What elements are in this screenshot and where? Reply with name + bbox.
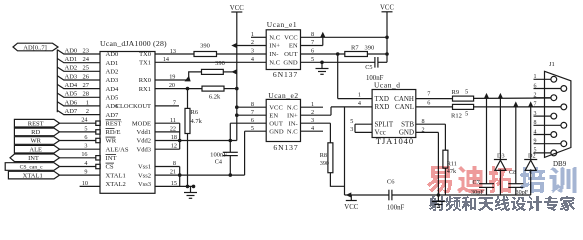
junction Vdd tie bbox=[178, 139, 182, 143]
connector pin 7 bbox=[534, 102, 567, 110]
resistor 6.2k (RX1) bbox=[202, 86, 224, 91]
junction C4 bottom bbox=[229, 173, 233, 177]
wire U_e2 pin4 stub bbox=[301, 130, 324, 132]
connector pin 1 bbox=[534, 74, 557, 82]
wire RX0 pin 19 bbox=[155, 79, 189, 81]
wire C5 to VCC2 bbox=[378, 61, 387, 63]
resistor R12 bbox=[453, 104, 474, 109]
connector pin 5 bbox=[534, 148, 557, 156]
wire VCC to U_e1 pin2 bbox=[237, 45, 266, 47]
wire AD2 bus entry bbox=[57, 67, 100, 71]
wire MODE pin 11 bbox=[155, 122, 180, 124]
port REST bbox=[14, 119, 59, 127]
wire U_e2 OUT pin6 bbox=[230, 122, 266, 124]
resistor 390 (RX0 pullup) bbox=[202, 69, 224, 74]
connector pin 3 bbox=[534, 111, 557, 119]
junction bbox=[235, 87, 239, 91]
wire TX1 pin 14 to opto bbox=[155, 61, 266, 63]
port RD bbox=[14, 128, 59, 136]
wire REST bbox=[60, 122, 96, 124]
bus AD[0..7] vertical bbox=[56, 50, 58, 113]
junction C4 top bbox=[229, 139, 233, 143]
wire VCC to U_e2 pin7 bbox=[237, 114, 266, 116]
port XTAL1 bbox=[8, 171, 59, 179]
junction ground stub bbox=[192, 185, 196, 189]
junction GND drop bbox=[320, 61, 324, 65]
junction arrow RX0 bbox=[185, 76, 191, 82]
port ALE bbox=[14, 145, 59, 153]
wire GND riser bbox=[437, 132, 439, 195]
wire Vdd3 pin 12 bbox=[155, 148, 180, 150]
wire U_e2 pin3 IN- bbox=[301, 122, 331, 124]
wire C8 bottom bbox=[515, 187, 517, 195]
wire R11 to rail bbox=[444, 168, 446, 195]
wire Vdd tie vertical bbox=[179, 123, 181, 149]
wire OUT drop bbox=[229, 123, 231, 140]
wire bottom rail right bbox=[392, 194, 531, 196]
wire INT bbox=[60, 157, 96, 159]
wire riser RXD row to bottom rail bbox=[344, 107, 346, 195]
junction arrow D2/CANL bbox=[528, 101, 533, 107]
diode D2 bbox=[524, 160, 537, 171]
wire CANH pin7 bbox=[416, 98, 453, 100]
capacitor C8 30pF bbox=[508, 184, 523, 188]
junction arrow pin2/VCC bbox=[231, 43, 237, 48]
wire GND pin2 bbox=[416, 131, 439, 133]
wire AD5 bus entry bbox=[57, 93, 100, 97]
wire AD7 bus entry bbox=[57, 110, 100, 114]
connector pin 9 bbox=[534, 139, 567, 147]
wire EN riser bbox=[322, 37, 324, 45]
wire STB pin8 bbox=[416, 123, 446, 125]
resistor R9 bbox=[453, 96, 474, 101]
wire to C4 bbox=[229, 141, 231, 153]
connector pin 8 bbox=[534, 120, 567, 128]
junction RX1/R6 bbox=[186, 87, 190, 91]
wire R7 to VCC2 bbox=[367, 53, 387, 55]
port CS_can_c bbox=[5, 163, 59, 171]
wire D2 top bbox=[530, 107, 532, 160]
wire RD bbox=[60, 131, 96, 133]
wire AD4 bus entry bbox=[57, 84, 100, 88]
wire RX0 riser to pullup bbox=[189, 72, 202, 80]
junction arrow C8/CANL bbox=[513, 101, 518, 107]
wire IN- to R8 bbox=[329, 123, 331, 143]
wire D3 bottom bbox=[499, 169, 501, 195]
wire Vss1 pin 8 bbox=[155, 166, 180, 168]
wire RX1 pin 20 bbox=[155, 88, 202, 90]
wire Vcc pin3 bbox=[355, 131, 372, 133]
junction arrow VCC tap bbox=[346, 192, 352, 197]
power VCC symbol (bottom) bbox=[344, 195, 358, 211]
wire CANH to DB9 pin2 bbox=[474, 97, 551, 99]
wire U_e2 pin2 IN+ bbox=[301, 114, 332, 116]
port INT bbox=[10, 154, 60, 162]
op-amp opto U_e2 6N137 body bbox=[266, 99, 300, 141]
wire RX1 to R6 bbox=[187, 89, 189, 109]
junction OUT/TXD bbox=[336, 52, 340, 56]
junction bbox=[235, 105, 239, 109]
wire bottom rail left bbox=[345, 194, 389, 196]
connector pin 2 bbox=[534, 93, 557, 101]
wire U_e1 GND bbox=[301, 61, 375, 63]
diode D3 bbox=[494, 160, 507, 171]
resistor 390 (TX0) bbox=[194, 52, 217, 57]
wire XTAL2 stub bbox=[80, 185, 100, 187]
wire WR bbox=[60, 140, 96, 142]
wire Vss tie vertical bbox=[179, 167, 181, 187]
wire C7 top bbox=[486, 98, 488, 183]
overlines on active-low pin names bbox=[106, 119, 122, 121]
bus label AD[0..7] bbox=[13, 43, 58, 51]
wire Vdd2 pin 18 to VCC riser bbox=[155, 140, 237, 142]
wire AD3 bus entry bbox=[57, 76, 100, 80]
wire CS_can_c bbox=[60, 166, 96, 168]
power VCC symbol (left) bbox=[230, 5, 244, 12]
wire U_e1 pin8 VCC bbox=[301, 36, 388, 38]
wire VCC vertical V1 bbox=[236, 12, 238, 141]
wire TXD pin1 bbox=[338, 98, 372, 100]
transistor-like IC U_d TJA1040 body bbox=[372, 90, 416, 138]
wire AD0 bus entry bbox=[57, 50, 100, 54]
inversion bubble WR bbox=[96, 138, 100, 142]
connector J1 DB9 shell bbox=[545, 71, 571, 157]
wire SPLIT-Vcc tie bbox=[354, 124, 356, 132]
wire Vdd1 pin 22 bbox=[155, 131, 180, 133]
inversion bubble REST bbox=[96, 121, 100, 125]
ground (SJA1000 Vss) bbox=[190, 186, 192, 192]
port WR bbox=[14, 137, 59, 145]
wire AD6 bus entry bbox=[57, 102, 100, 106]
wire TX0 to opto IN- bbox=[217, 53, 267, 55]
wire AD1 bus entry bbox=[57, 59, 100, 63]
wire U_e1 OUT bbox=[301, 53, 345, 55]
junction R6/Vss bbox=[186, 185, 190, 189]
resistor R6 4.7k bbox=[185, 108, 190, 133]
wire C7 bottom bbox=[486, 187, 488, 195]
wire GND drop to ground row bbox=[244, 131, 246, 175]
junction R7/VCC2 bbox=[385, 52, 389, 56]
inversion bubble RD bbox=[96, 130, 100, 134]
wire XTAL1 bbox=[60, 174, 101, 176]
wire VCC to U_e2 pin8 bbox=[237, 106, 266, 108]
wire TX0 pin 13 bbox=[155, 53, 194, 55]
connector pin 6 bbox=[534, 83, 567, 91]
wire SPLIT pin5 bbox=[355, 123, 372, 125]
wire D2 bottom bbox=[530, 169, 532, 195]
wire IN+ riser to RXD bbox=[330, 107, 332, 115]
wire Vss3 pin 15 bbox=[155, 185, 194, 187]
wire U_e1 pin7 EN bbox=[301, 45, 323, 47]
capacitor C7 30pF bbox=[479, 184, 494, 188]
wire 6.2k to VCC vertical bbox=[224, 88, 237, 90]
power VCC symbol (right) bbox=[380, 5, 394, 12]
resistor R7 390 bbox=[345, 52, 368, 57]
wire U_e2 pin1 stub bbox=[301, 106, 324, 108]
IC U_can SJA1000 body bbox=[100, 52, 155, 194]
op-amp opto U_e1 6N137 body bbox=[266, 30, 300, 70]
wire C8 top bbox=[515, 107, 517, 184]
wire CLOCKOUT pin 7 stub bbox=[155, 105, 179, 107]
wire ALE bbox=[60, 148, 101, 150]
connector pin 4 bbox=[534, 129, 557, 137]
resistor R11 47k bbox=[443, 150, 448, 168]
inversion bubble CS_can_c bbox=[96, 164, 100, 168]
junction pin8/VCC2 bbox=[385, 36, 389, 40]
junction bbox=[235, 113, 239, 117]
ground (TJA1040) bbox=[437, 195, 439, 202]
junction GND/rail bbox=[437, 193, 441, 197]
wire TXD riser from opto OUT bbox=[337, 54, 339, 99]
wire CANL to DB9 pin7 bbox=[474, 106, 561, 108]
wire C4 to ground row bbox=[229, 156, 231, 176]
watermark gray text 射频和天线设计专家 bbox=[429, 196, 575, 211]
wire R6 to ground row bbox=[187, 134, 189, 187]
wire pullup to VCC rail bbox=[223, 71, 237, 73]
junction arrow EN/VCC bbox=[320, 32, 325, 38]
ground (U_e1) bbox=[321, 62, 323, 68]
wire STB to R11 bbox=[444, 124, 446, 150]
wire R8 to bottom rail bbox=[330, 173, 344, 187]
capacitor C6 100nF bbox=[389, 190, 392, 201]
junction arrow C7/CANH bbox=[484, 93, 489, 99]
wire CANL pin6 bbox=[416, 106, 453, 108]
resistor R8 390 bbox=[328, 143, 333, 173]
wire D3 top bbox=[499, 98, 501, 159]
junction arrow D3/CANH bbox=[498, 93, 503, 99]
wire Vss2 pin 21 ground row bbox=[155, 174, 245, 176]
watermark red text 易迪拓 / blue 培训 bbox=[427, 166, 452, 193]
wire VCC vertical V2 bbox=[386, 12, 388, 63]
wire U_e2 GND pin5 bbox=[245, 130, 267, 132]
capacitor C4 100nF bbox=[223, 152, 238, 155]
capacitor C5 100nF bbox=[375, 57, 378, 68]
junction arrow at VCC vertical bbox=[231, 69, 237, 74]
inversion bubble INT bbox=[96, 156, 100, 160]
junction Vss tie bbox=[178, 173, 182, 177]
wire RXD pin4 bbox=[331, 106, 372, 108]
wire U_e1 pin1 stub bbox=[251, 36, 266, 38]
